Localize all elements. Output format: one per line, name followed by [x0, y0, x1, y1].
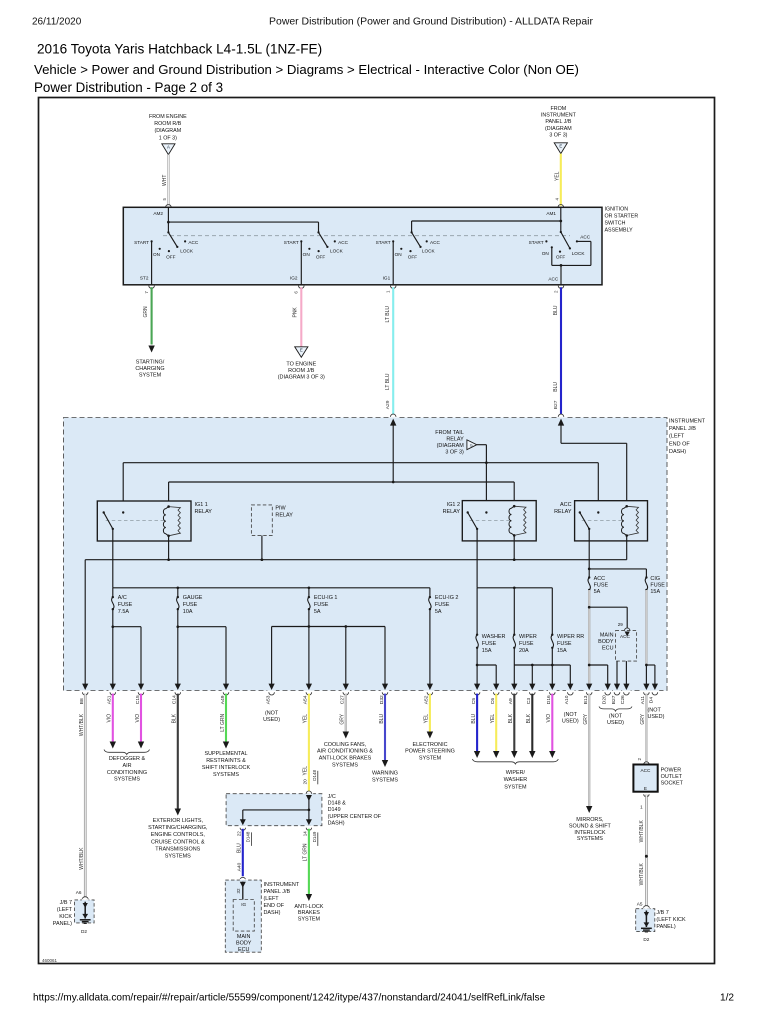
dashed linkage line	[163, 235, 570, 237]
svg-text:E: E	[644, 786, 647, 791]
svg-text:ROOM R/B: ROOM R/B	[154, 121, 181, 127]
svg-text:20: 20	[303, 779, 308, 785]
switch 4 ACC	[560, 231, 562, 233]
wire VIO D16	[551, 694, 553, 751]
svg-text:3 OF 3): 3 OF 3)	[445, 449, 464, 455]
wire GRY B13	[588, 694, 590, 806]
svg-text:(DIAGRAM 3 OF 3): (DIAGRAM 3 OF 3)	[278, 375, 325, 381]
wire IG11 out	[112, 529, 114, 588]
svg-text:BLU: BLU	[379, 714, 385, 724]
svg-text:FUSE: FUSE	[519, 641, 534, 647]
svg-text:SYSTEMS: SYSTEMS	[372, 777, 398, 783]
wire AM2 down	[167, 207, 169, 232]
svg-text:CIG: CIG	[650, 576, 660, 582]
power outlet socket box	[633, 765, 657, 792]
IG1 output connector	[390, 286, 396, 289]
svg-text:BRAKES: BRAKES	[298, 910, 320, 916]
svg-text:B27: B27	[611, 695, 617, 704]
PIW relay dashed	[251, 505, 272, 536]
svg-text:D148 &: D148 &	[328, 801, 347, 807]
svg-text:IG1: IG1	[383, 276, 391, 281]
ground right D2	[644, 922, 650, 927]
relay IG1 2 linkage	[470, 520, 510, 522]
wire WHT/BLK right	[644, 794, 649, 797]
svg-text:5A: 5A	[435, 609, 442, 615]
svg-text:ANTI-LOCK BRAKES: ANTI-LOCK BRAKES	[319, 756, 372, 762]
svg-text:SHIFT INTERLOCK: SHIFT INTERLOCK	[202, 765, 251, 771]
node C5 boundary	[474, 684, 480, 690]
svg-text:C3: C3	[526, 698, 532, 705]
bus IG2 fuses	[477, 587, 552, 589]
wire GRY cig fuse out	[645, 590, 647, 665]
svg-text:A51: A51	[107, 695, 113, 704]
svg-text:DASH): DASH)	[669, 449, 686, 455]
svg-text:OFF: OFF	[408, 255, 418, 260]
svg-text:USED): USED)	[562, 719, 579, 725]
node C15 boundary	[138, 684, 144, 690]
GAUGE fuse out	[177, 609, 179, 684]
arrow starting system	[148, 346, 154, 353]
svg-text:22: 22	[237, 831, 242, 837]
arrow into JB2	[240, 882, 246, 888]
wire YEL C6	[495, 694, 497, 751]
svg-text:Power Distribution (Power and: Power Distribution (Power and Ground Dis…	[269, 16, 593, 27]
svg-text:(NOT: (NOT	[648, 707, 662, 713]
wire WHT from A	[167, 155, 169, 206]
svg-text:ON: ON	[153, 252, 160, 257]
svg-text:1/2: 1/2	[720, 992, 734, 1003]
arrow into JB 2	[558, 419, 564, 426]
svg-text:IG1 1: IG1 1	[195, 502, 208, 508]
svg-text:BLK: BLK	[526, 713, 532, 723]
svg-text:START: START	[529, 240, 544, 245]
svg-text:A54: A54	[303, 695, 309, 704]
relay ACC switch	[579, 511, 581, 513]
svg-text:ECU: ECU	[602, 646, 614, 652]
JC exit arrows	[240, 819, 246, 825]
wire LT BLU	[392, 287, 394, 414]
wire D20 drop	[607, 665, 609, 684]
svg-text:Power Distribution - Page 2 of: Power Distribution - Page 2 of 3	[34, 80, 223, 95]
svg-text:WASHER: WASHER	[504, 777, 528, 783]
svg-text:C26: C26	[620, 695, 626, 704]
C26 crossing	[623, 684, 629, 690]
fuse CIG 15A	[645, 576, 647, 578]
wire IG12 input	[485, 463, 487, 513]
svg-text:PNK: PNK	[293, 307, 299, 318]
arc pin29	[625, 628, 630, 631]
svg-text:C5: C5	[471, 698, 477, 705]
A10 crossing not used	[567, 684, 573, 690]
svg-text:START: START	[376, 240, 391, 245]
svg-text:BLU: BLU	[471, 714, 477, 724]
svg-text:GRY: GRY	[340, 713, 346, 724]
svg-text:WHT/BLK: WHT/BLK	[639, 819, 645, 842]
svg-text:A5: A5	[637, 901, 643, 906]
arrow into main body ecu	[625, 632, 630, 637]
IG2 output connector	[299, 286, 305, 289]
svg-text:E: E	[300, 348, 303, 353]
relay IG1 1 switch	[103, 511, 105, 513]
wire GRY A11	[645, 694, 647, 762]
svg-text:(DIAGRAM: (DIAGRAM	[545, 126, 572, 132]
connector triangle A	[162, 144, 175, 155]
arrow eps	[427, 732, 433, 739]
svg-text:3 OF 3): 3 OF 3)	[549, 132, 567, 138]
wire LT GRN abs	[308, 829, 310, 894]
svg-text:D2: D2	[81, 929, 87, 934]
svg-text:GRN: GRN	[143, 306, 149, 318]
arc A40	[240, 877, 246, 880]
svg-text:INSTRUMENT: INSTRUMENT	[541, 113, 577, 119]
node A9 boundary	[511, 684, 517, 690]
node A52 boundary	[427, 684, 433, 690]
svg-text:TRANSMISSIONS: TRANSMISSIONS	[155, 846, 200, 852]
svg-text:ACC: ACC	[188, 240, 199, 245]
svg-text:EXTERIOR LIGHTS,: EXTERIOR LIGHTS,	[153, 818, 204, 824]
bus coil ground	[85, 559, 627, 561]
wire B27 drop	[616, 661, 618, 684]
wire AM1 to IG1 switch	[412, 220, 561, 222]
svg-text:D16: D16	[546, 695, 552, 704]
svg-text:START: START	[284, 240, 299, 245]
svg-text:https://my.alldata.com/repair/: https://my.alldata.com/repair/#/repair/a…	[33, 993, 545, 1004]
JC internal wiring	[308, 795, 310, 810]
wire GRN	[151, 287, 153, 344]
svg-text:VIO: VIO	[546, 714, 552, 723]
fuse ACC 5A	[588, 569, 590, 578]
svg-text:FROM TAIL: FROM TAIL	[435, 430, 464, 436]
svg-text:WHT/BLK: WHT/BLK	[639, 862, 645, 885]
svg-text:ROOM J/B: ROOM J/B	[288, 368, 315, 374]
node AM2 junction	[167, 221, 170, 224]
svg-text:CRUISE CONTROL &: CRUISE CONTROL &	[151, 839, 205, 845]
svg-text:CONDITIONING: CONDITIONING	[107, 770, 147, 776]
main body ecu inner box	[233, 900, 254, 932]
svg-text:G: G	[470, 444, 473, 448]
node ACC out junction	[560, 264, 563, 267]
fuse ECU-IG2 5A	[429, 596, 431, 598]
wire BLU	[560, 287, 562, 414]
svg-text:20A: 20A	[519, 648, 529, 654]
wire BLK C14	[177, 694, 179, 809]
svg-text:DEFOGGER &: DEFOGGER &	[109, 756, 146, 762]
wire VIO A51	[112, 694, 114, 742]
svg-text:SYSTEMS: SYSTEMS	[165, 854, 191, 860]
node branch main body ecu	[588, 606, 591, 609]
svg-text:29: 29	[618, 622, 624, 627]
svg-text:WARNING: WARNING	[372, 770, 398, 776]
arrow into JC	[306, 795, 312, 801]
svg-text:D149: D149	[328, 807, 341, 813]
svg-text:D148: D148	[246, 831, 251, 842]
svg-text:ELECTRONIC: ELECTRONIC	[412, 742, 447, 748]
svg-text:PANEL): PANEL)	[53, 921, 72, 927]
svg-text:C14: C14	[172, 695, 178, 704]
switch pivot sw1	[167, 231, 169, 233]
svg-text:(NOT: (NOT	[265, 711, 279, 717]
svg-text:WHT/BLK: WHT/BLK	[79, 847, 85, 870]
svg-text:A6: A6	[76, 890, 82, 895]
svg-text:LOCK: LOCK	[422, 249, 436, 254]
svg-text:VIO: VIO	[107, 714, 113, 723]
wire BLU D32	[384, 694, 386, 760]
svg-text:WIPER RR: WIPER RR	[557, 634, 584, 640]
svg-text:GRY: GRY	[583, 713, 589, 724]
svg-text:KICK: KICK	[59, 914, 72, 920]
wire ON contact down	[551, 247, 553, 265]
svg-text:ASSEMBLY: ASSEMBLY	[605, 228, 634, 234]
svg-text:D20: D20	[602, 695, 608, 704]
svg-text:USED): USED)	[607, 720, 624, 726]
relay box ACC	[575, 501, 648, 541]
svg-text:FUSE: FUSE	[435, 602, 450, 608]
D20 crossing	[605, 684, 611, 690]
svg-text:END OF: END OF	[669, 441, 690, 447]
bus line B coil feeds	[169, 481, 515, 483]
arc A29	[390, 414, 396, 417]
svg-text:LT BLU: LT BLU	[385, 306, 391, 323]
svg-text:LT GRN: LT GRN	[220, 714, 226, 732]
svg-text:ST2: ST2	[140, 276, 149, 281]
svg-text:ON: ON	[395, 252, 402, 257]
fuse WASHER 15A	[476, 634, 478, 636]
svg-text:FUSE: FUSE	[557, 641, 572, 647]
svg-text:14: 14	[303, 831, 308, 837]
JB7 right box	[636, 909, 655, 932]
svg-text:IGNITION: IGNITION	[605, 207, 629, 213]
svg-text:26/11/2020: 26/11/2020	[32, 16, 82, 27]
node C6 boundary	[493, 684, 499, 690]
switch arm sw3	[412, 232, 421, 247]
arrow abs	[306, 894, 312, 901]
arrow srs	[223, 742, 229, 749]
svg-text:(NOT: (NOT	[564, 712, 578, 718]
svg-text:ACC: ACC	[594, 576, 606, 582]
svg-text:GAUGE: GAUGE	[183, 595, 203, 601]
switch pivot sw3	[410, 231, 412, 233]
JC D148 D149 box	[226, 794, 322, 826]
svg-text:BLU: BLU	[237, 843, 243, 853]
svg-text:BODY: BODY	[598, 639, 614, 645]
B8 crossing	[82, 684, 88, 690]
node C3 boundary	[529, 684, 535, 690]
wire IG11 coil gnd	[168, 536, 170, 560]
svg-text:PANEL J/B: PANEL J/B	[264, 889, 291, 895]
svg-text:ECU-IG 2: ECU-IG 2	[435, 595, 459, 601]
svg-text:7.5A: 7.5A	[118, 609, 130, 615]
svg-text:LT GRN: LT GRN	[303, 843, 309, 861]
svg-text:OFF: OFF	[316, 255, 326, 260]
WIPER fuses out	[513, 648, 515, 665]
svg-text:LOCK: LOCK	[180, 249, 194, 254]
arrow cooling fans	[343, 732, 349, 739]
svg-text:OFF: OFF	[166, 255, 176, 260]
arrow mirrors	[586, 806, 592, 813]
node A54 boundary	[306, 684, 312, 690]
node C27 boundary	[343, 684, 349, 690]
svg-text:FROM ENGINE: FROM ENGINE	[149, 114, 187, 120]
svg-text:PANEL J/B: PANEL J/B	[545, 119, 572, 125]
svg-text:LOCK: LOCK	[572, 251, 586, 256]
JB7 left internal wire	[84, 902, 86, 919]
svg-text:(NOT: (NOT	[609, 714, 623, 720]
svg-text:AIR CONDITIONING &: AIR CONDITIONING &	[317, 749, 373, 755]
svg-text:PANEL J/B: PANEL J/B	[669, 426, 696, 432]
svg-text:FUSE: FUSE	[183, 602, 198, 608]
svg-text:MAIN: MAIN	[237, 934, 251, 940]
svg-text:SYSTEM: SYSTEM	[504, 785, 527, 791]
svg-text:(LEFT: (LEFT	[57, 907, 73, 913]
brace wiper washer	[472, 759, 558, 764]
svg-text:(LEFT: (LEFT	[264, 896, 280, 902]
svg-text:FUSE: FUSE	[482, 641, 497, 647]
svg-text:BLU: BLU	[553, 305, 559, 315]
svg-text:ACC: ACC	[430, 240, 441, 245]
wire D4 drop	[654, 665, 656, 684]
relay IG1 2 switch	[467, 511, 469, 513]
node tail junction	[485, 461, 488, 464]
svg-text:AM1: AM1	[546, 211, 556, 216]
connector arc AM1	[558, 205, 564, 208]
svg-text:15A: 15A	[650, 589, 660, 595]
svg-text:OR STARTER: OR STARTER	[605, 214, 639, 220]
svg-text:A: A	[167, 145, 170, 150]
wire BLK A9	[513, 694, 515, 751]
contacts sw1	[151, 240, 153, 242]
contacts sw2	[300, 240, 302, 242]
instrument panel JB box	[64, 418, 668, 691]
relay box IG1 2	[462, 501, 536, 541]
node A49 boundary	[223, 684, 229, 690]
connector triangle E	[554, 143, 567, 154]
arrows defogger	[110, 742, 116, 749]
svg-text:OUTLET: OUTLET	[661, 774, 683, 780]
svg-text:15A: 15A	[482, 648, 492, 654]
wire BLU C5	[476, 694, 478, 751]
switch pivot sw2	[317, 231, 319, 233]
svg-text:15A: 15A	[557, 648, 567, 654]
svg-text:WHT/BLK: WHT/BLK	[79, 713, 85, 736]
svg-text:(LEFT: (LEFT	[669, 434, 685, 440]
arrows wiper washer	[474, 751, 480, 758]
wire IG12 coil gnd	[513, 536, 515, 560]
svg-text:CHARGING: CHARGING	[135, 366, 164, 372]
wire AM1 down	[560, 207, 562, 232]
A11 crossing	[643, 684, 649, 690]
svg-text:YEL: YEL	[303, 766, 309, 776]
svg-text:AIR: AIR	[122, 763, 131, 769]
svg-text:A/C: A/C	[118, 595, 127, 601]
svg-text:SYSTEMS: SYSTEMS	[577, 836, 603, 842]
svg-text:BLK: BLK	[172, 713, 178, 723]
brace not used	[599, 707, 632, 712]
arrow warning	[382, 760, 388, 767]
svg-text:GRY: GRY	[640, 713, 646, 724]
svg-text:IG: IG	[241, 902, 246, 907]
svg-text:SWITCH: SWITCH	[605, 221, 626, 227]
wire ACC coil gnd	[626, 536, 628, 560]
svg-text:RELAY: RELAY	[195, 509, 213, 515]
bus IG1 fuses	[113, 587, 430, 589]
A/C fuse out	[112, 609, 114, 684]
svg-text:LT BLU: LT BLU	[385, 373, 391, 390]
svg-text:SYSTEM: SYSTEM	[139, 373, 162, 379]
svg-text:FUSE: FUSE	[650, 582, 665, 588]
svg-text:ACC: ACC	[560, 502, 572, 508]
svg-text:STARTING/: STARTING/	[136, 360, 165, 366]
wire LT GRN A49	[225, 694, 227, 742]
D4 crossing	[652, 684, 658, 690]
fuse WIPER RR 15A	[551, 634, 553, 636]
instrument panel JB left end box	[225, 880, 261, 952]
svg-text:ACC: ACC	[338, 240, 349, 245]
svg-text:LOCK: LOCK	[330, 249, 344, 254]
svg-text:POWER: POWER	[661, 767, 682, 773]
wire tail relay feed	[477, 444, 487, 446]
svg-text:BODY: BODY	[236, 941, 252, 947]
B13 crossing	[586, 684, 592, 690]
fuse GAUGE 10A	[177, 588, 179, 597]
svg-text:START: START	[134, 240, 149, 245]
svg-text:5A: 5A	[594, 589, 601, 595]
ground left D2	[82, 914, 88, 919]
svg-text:RELAY: RELAY	[446, 436, 464, 442]
svg-text:FUSE: FUSE	[118, 602, 133, 608]
svg-text:FUSE: FUSE	[314, 602, 329, 608]
svg-text:Vehicle > Power and Ground Dis: Vehicle > Power and Ground Distribution …	[34, 62, 579, 77]
svg-text:OFF: OFF	[556, 255, 566, 260]
svg-text:D2: D2	[643, 937, 649, 942]
svg-text:ACC: ACC	[641, 768, 652, 773]
wire bus1 to B8	[84, 560, 86, 684]
svg-text:ACC: ACC	[548, 277, 559, 282]
ECU-IG2 fuse out	[429, 609, 431, 684]
relay IG1 1 linkage	[106, 520, 164, 522]
relay box IG1 1	[97, 501, 191, 541]
svg-text:SOCKET: SOCKET	[661, 780, 684, 786]
node D32 boundary	[382, 684, 388, 690]
svg-text:D149: D149	[312, 831, 317, 842]
svg-text:RELAY: RELAY	[443, 509, 461, 515]
B27 crossing	[614, 684, 620, 690]
arrow exterior lights	[175, 809, 181, 816]
wire ACC out	[588, 529, 590, 569]
svg-text:YEL: YEL	[303, 714, 309, 724]
svg-text:WASHER: WASHER	[482, 634, 506, 640]
svg-text:STARTING/CHARGING,: STARTING/CHARGING,	[148, 825, 208, 831]
relay ACC linkage	[582, 520, 622, 522]
svg-text:C15: C15	[135, 695, 141, 704]
A53 crossing not used	[269, 684, 275, 690]
svg-text:TO ENGINE: TO ENGINE	[286, 362, 316, 368]
svg-text:IG2: IG2	[290, 276, 298, 281]
switch arm sw1	[168, 232, 177, 247]
svg-text:AM2: AM2	[153, 211, 163, 216]
svg-text:BLK: BLK	[508, 713, 514, 723]
svg-text:1 OF 3): 1 OF 3)	[159, 135, 177, 141]
svg-text:RESTRAINTS &: RESTRAINTS &	[206, 758, 246, 764]
svg-text:SYSTEMS: SYSTEMS	[114, 777, 140, 783]
wire BLU feed to ACC coil	[560, 425, 562, 444]
wire PNK	[300, 287, 302, 347]
wire GRY acc fuse out	[588, 590, 590, 684]
svg-text:WIPER/: WIPER/	[506, 770, 526, 776]
svg-text:INSTRUMENT: INSTRUMENT	[669, 419, 706, 425]
svg-text:SUPPLEMENTAL: SUPPLEMENTAL	[204, 751, 247, 757]
svg-text:RELAY: RELAY	[275, 512, 293, 518]
wire C26 drop	[625, 661, 627, 684]
